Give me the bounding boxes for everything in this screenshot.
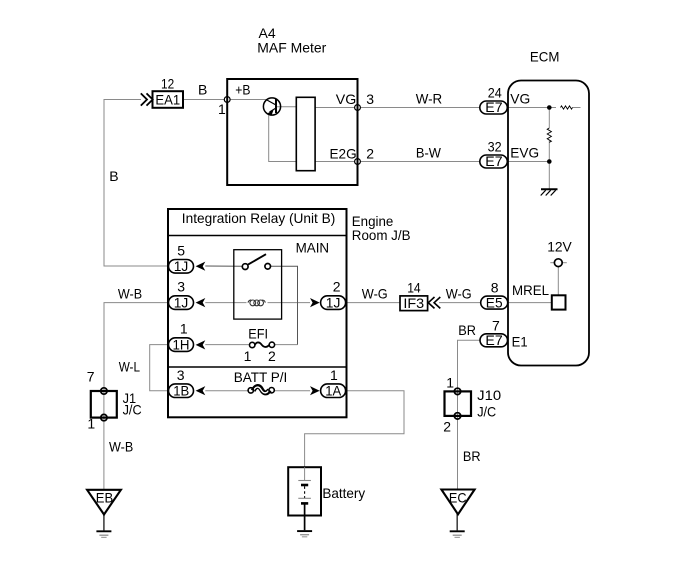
svg-text:J/C: J/C (477, 403, 496, 419)
svg-text:Battery: Battery (322, 485, 365, 501)
svg-text:24: 24 (488, 84, 502, 100)
svg-text:2: 2 (366, 145, 374, 161)
svg-text:7: 7 (87, 369, 95, 385)
svg-text:VG: VG (336, 91, 357, 107)
svg-text:1: 1 (218, 101, 226, 117)
svg-text:BATT P/I: BATT P/I (234, 369, 288, 385)
svg-text:1J: 1J (326, 294, 341, 310)
svg-text:1: 1 (446, 374, 454, 390)
svg-text:1B: 1B (173, 383, 189, 399)
svg-text:MAF Meter: MAF Meter (257, 40, 326, 56)
svg-text:EC: EC (449, 490, 467, 506)
svg-text:W-B: W-B (118, 285, 142, 301)
svg-text:1A: 1A (325, 383, 342, 399)
svg-text:1H: 1H (173, 337, 190, 353)
svg-text:1J: 1J (174, 258, 189, 274)
svg-text:W-G: W-G (446, 285, 472, 301)
svg-text:EVG: EVG (510, 145, 539, 161)
svg-text:BR: BR (463, 448, 481, 464)
svg-text:W-B: W-B (109, 439, 133, 455)
svg-text:3: 3 (177, 279, 185, 295)
svg-text:12V: 12V (547, 239, 572, 255)
svg-text:8: 8 (491, 279, 499, 295)
svg-text:E7: E7 (485, 153, 503, 169)
svg-text:MREL: MREL (512, 282, 549, 298)
svg-text:E1: E1 (512, 334, 528, 350)
svg-text:E7: E7 (485, 332, 503, 348)
svg-text:B-W: B-W (416, 145, 442, 161)
svg-text:2: 2 (268, 348, 276, 364)
svg-text:A4: A4 (259, 25, 276, 41)
svg-text:Integration Relay (Unit B): Integration Relay (Unit B) (182, 210, 335, 226)
svg-text:VG: VG (510, 90, 530, 106)
svg-text:W-R: W-R (416, 90, 443, 106)
svg-text:EB: EB (96, 489, 113, 505)
svg-text:MAIN: MAIN (296, 240, 330, 256)
svg-text:B: B (109, 168, 118, 184)
svg-text:1J: 1J (174, 294, 189, 310)
svg-text:B: B (198, 81, 207, 97)
svg-text:7: 7 (492, 317, 500, 333)
svg-text:J/C: J/C (123, 402, 142, 418)
svg-text:1: 1 (180, 321, 188, 337)
svg-text:E2G: E2G (330, 145, 357, 161)
svg-text:IF3: IF3 (403, 295, 424, 311)
svg-text:E5: E5 (486, 294, 503, 310)
svg-text:1: 1 (244, 348, 252, 364)
svg-text:J10: J10 (477, 387, 501, 403)
svg-text:+B: +B (235, 81, 250, 97)
svg-text:5: 5 (177, 242, 185, 258)
svg-text:1: 1 (330, 367, 338, 383)
svg-text:EA1: EA1 (155, 91, 180, 107)
svg-text:2: 2 (443, 419, 451, 435)
svg-text:BR: BR (458, 322, 476, 338)
svg-text:14: 14 (407, 279, 421, 295)
svg-text:E7: E7 (485, 99, 503, 115)
svg-text:1: 1 (87, 416, 95, 432)
svg-text:2: 2 (333, 279, 341, 295)
svg-text:3: 3 (177, 367, 185, 383)
svg-text:32: 32 (488, 139, 502, 155)
svg-text:EFI: EFI (248, 326, 268, 342)
svg-text:12: 12 (161, 75, 174, 91)
svg-text:W-L: W-L (119, 359, 140, 375)
svg-text:3: 3 (366, 91, 374, 107)
svg-text:Room J/B: Room J/B (352, 227, 411, 243)
svg-text:W-G: W-G (362, 285, 388, 301)
svg-text:ECM: ECM (530, 49, 560, 65)
